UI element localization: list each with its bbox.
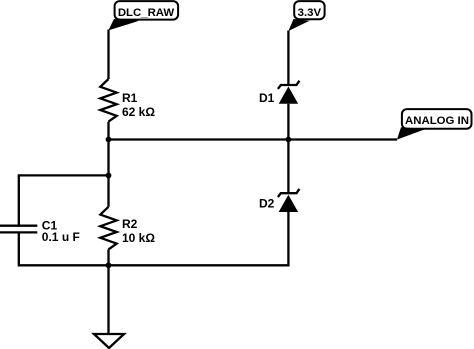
resistor R1 bbox=[100, 79, 155, 122]
net label DLC_RAW bbox=[108, 1, 178, 30]
wire horizontal to ANALOG IN bbox=[109, 138, 398, 140]
wire R2 bottom to ground bbox=[107, 249, 109, 334]
capacitor C1 bbox=[0, 219, 80, 245]
svg-text:D1: D1 bbox=[259, 91, 275, 105]
diode D1 (zener) bbox=[259, 81, 299, 105]
svg-text:0.1 u F: 0.1 u F bbox=[42, 230, 80, 244]
wire branch to C1 bbox=[19, 175, 109, 226]
svg-text:10 kΩ: 10 kΩ bbox=[122, 231, 155, 245]
svg-text:DLC_RAW: DLC_RAW bbox=[118, 7, 175, 19]
svg-text:R2: R2 bbox=[122, 217, 138, 231]
svg-text:3.3V: 3.3V bbox=[298, 7, 322, 19]
net label ANALOG IN bbox=[397, 109, 472, 140]
node junction R1/analog wire bbox=[106, 137, 112, 143]
ground bbox=[94, 334, 124, 348]
wire 3.3V to D1 cathode bbox=[287, 31, 289, 86]
wire D1 anode to D2 cathode bbox=[287, 104, 289, 193]
resistor R2 bbox=[100, 207, 155, 250]
wire R1 bottom to R2 top bbox=[107, 122, 109, 207]
wire C1 bottom to bottom rail bbox=[19, 232, 109, 266]
node junction C1 branch bbox=[106, 173, 112, 179]
wire DLC_RAW to R1 top bbox=[107, 30, 109, 80]
net label 3.3V bbox=[288, 1, 324, 31]
svg-text:R1: R1 bbox=[122, 91, 138, 105]
svg-text:D2: D2 bbox=[259, 196, 275, 210]
svg-text:ANALOG IN: ANALOG IN bbox=[405, 115, 469, 127]
node junction bottom rail bbox=[106, 262, 112, 268]
node junction diode/analog wire bbox=[286, 137, 292, 143]
diode D2 (zener) bbox=[259, 189, 299, 212]
wire bottom rail to D2 bbox=[109, 212, 289, 265]
svg-text:62 kΩ: 62 kΩ bbox=[122, 105, 155, 119]
